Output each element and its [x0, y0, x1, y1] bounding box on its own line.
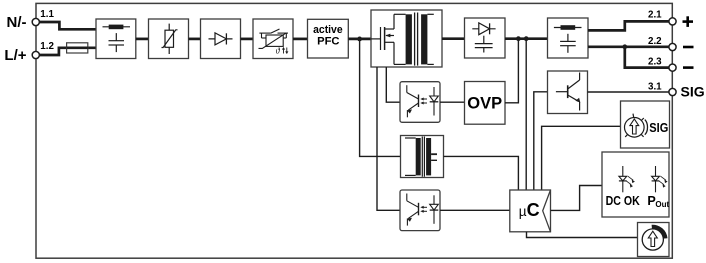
svg-text:SIG: SIG	[681, 83, 705, 99]
transformer T1	[394, 13, 434, 66]
wire converter to optocoupler 1	[386, 67, 400, 102]
rectifier diode D2	[472, 23, 495, 35]
junction node to microcontroller	[524, 36, 529, 41]
terminal 2.1	[669, 18, 676, 25]
svg-text:2.2: 2.2	[648, 36, 662, 47]
wire optocoupler 1 to OVP	[440, 101, 465, 103]
optocoupler U2 box	[400, 82, 440, 123]
plus symbol	[683, 16, 694, 27]
optocoupler U2 LED	[430, 87, 439, 116]
svg-text:2.3: 2.3	[648, 56, 662, 67]
wire output filter to terminal 2.2	[588, 45, 669, 48]
MOSFET Q1	[371, 14, 394, 64]
wire from terminal 1.1 to input filter	[39, 22, 96, 29]
wire converter to optocoupler 2	[377, 67, 400, 210]
terminal 2.3	[669, 64, 676, 71]
output filter inductor	[554, 25, 582, 30]
inrush limiter box	[253, 19, 293, 59]
wire filter to varistor	[136, 38, 149, 41]
svg-text:Out: Out	[655, 200, 669, 209]
active PFC box	[308, 19, 349, 58]
wire rectifier to output filter	[505, 37, 548, 40]
optocoupler U3 phototransistor	[407, 194, 419, 226]
input filter inductor	[103, 25, 131, 30]
relay bypass contact	[259, 29, 288, 38]
terminal 3.1	[669, 88, 676, 95]
microcontroller box	[510, 190, 551, 232]
optocoupler U3 box	[400, 190, 440, 231]
wire optocoupler 2 to microcontroller	[440, 209, 510, 211]
SIG selector rotary switch	[625, 114, 648, 138]
converter box (MOSFET + transformer T1)	[371, 10, 442, 67]
output filter box	[548, 18, 589, 58]
optocoupler U2 phototransistor	[407, 85, 419, 117]
wire junction down to auxiliary transformer	[360, 39, 401, 156]
SIG selector box	[621, 101, 670, 148]
junction node to OVP	[516, 36, 521, 41]
output rectifier box	[465, 18, 506, 58]
svg-text:OVP: OVP	[467, 95, 502, 113]
svg-text:2.1: 2.1	[648, 9, 662, 20]
svg-text:DC OK: DC OK	[606, 194, 640, 208]
svg-text:N/-: N/-	[7, 14, 27, 31]
wire transistor driver to microcontroller	[534, 92, 548, 190]
svg-text:active: active	[313, 24, 343, 36]
svg-text:1.1: 1.1	[40, 9, 54, 20]
junction node minus branch	[622, 44, 627, 49]
svg-text:1.2: 1.2	[40, 41, 54, 52]
SIG selector arrow	[630, 119, 639, 134]
signal transistor box	[548, 71, 588, 114]
wire auxiliary transformer to microcontroller	[444, 156, 519, 190]
LED DC OK	[619, 166, 633, 192]
terminal 1.2	[32, 51, 39, 58]
varistor RV1	[162, 24, 178, 54]
wire junction down to microcontroller	[525, 39, 527, 190]
wire from terminal 1.2 through fuse to input filter	[39, 48, 96, 55]
potentiometer arrow	[648, 231, 657, 246]
junction node after PFC	[357, 37, 362, 42]
auxiliary transformer T2	[405, 137, 437, 177]
optocoupler U2 light arrows	[422, 99, 427, 103]
label active PFC	[313, 24, 343, 47]
fuse F1	[67, 43, 88, 53]
potentiometer rotary symbol	[642, 229, 663, 250]
svg-text:µC: µC	[519, 200, 540, 220]
wire diode to inrush limiter	[241, 38, 254, 41]
optocoupler U3 LED	[430, 195, 439, 224]
svg-text:L/+: L/+	[4, 47, 26, 64]
wire varistor to diode	[189, 38, 201, 41]
terminal 2.2	[669, 43, 676, 50]
svg-text:PFC: PFC	[317, 35, 339, 47]
auxiliary transformer T2 box	[401, 136, 444, 178]
wire inrush limiter to active PFC	[293, 38, 308, 41]
wire branch to terminal 2.3	[625, 47, 670, 68]
rectifier filter capacitor	[475, 36, 493, 53]
potentiometer adjustment arc	[652, 225, 668, 239]
wire OVP to junction	[505, 39, 518, 103]
minus symbol at 2.3	[683, 66, 694, 69]
wire converter to output rectifier	[442, 37, 465, 40]
input filter capacitor	[109, 33, 125, 52]
wire transistor to terminal 3.1	[588, 91, 670, 93]
wire active PFC to converter	[348, 38, 371, 41]
LED P out	[652, 166, 666, 192]
wire output filter to terminal 2.1	[588, 21, 669, 30]
wire SIG selector to microcontroller	[542, 126, 621, 190]
diode box	[201, 19, 241, 59]
fuse through line	[67, 46, 88, 49]
output filter capacitor	[560, 34, 576, 53]
wire microcontroller to potentiometer	[527, 232, 638, 238]
varistor box	[149, 19, 189, 59]
optocoupler U3 light arrows	[422, 207, 427, 211]
svg-text:SIG: SIG	[649, 121, 668, 135]
potentiometer box	[638, 223, 670, 257]
NTC thermistor R1	[259, 33, 287, 48]
transistor Q2	[556, 73, 580, 111]
LED indicator box	[602, 152, 669, 217]
OVP box	[465, 82, 506, 125]
diode D1	[209, 33, 233, 45]
svg-text:3.1: 3.1	[648, 81, 662, 92]
input filter box	[96, 19, 136, 59]
terminal 1.1	[32, 18, 39, 25]
minus symbol at 2.2	[683, 46, 694, 49]
wire microcontroller to LED box	[551, 186, 603, 211]
